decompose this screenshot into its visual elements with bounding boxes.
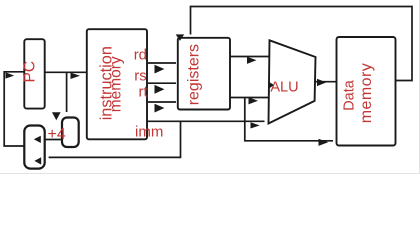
wire rd — [148, 62, 176, 64]
PC register — [24, 39, 44, 108]
arrowhead into instruction memory — [71, 73, 81, 79]
svg-text:rd: rd — [134, 47, 147, 64]
faint screen border right — [419, 0, 420, 174]
svg-text:memory: memory — [108, 56, 125, 112]
svg-text:+4: +4 — [48, 126, 66, 143]
arrowhead into +4 adder — [52, 112, 61, 120]
wire read data 2 to ALU — [230, 97, 269, 99]
wire writeback from data memory to registers — [191, 7, 413, 81]
wire rs — [148, 82, 176, 84]
svg-text:imm: imm — [135, 124, 163, 141]
wire mux output to PC — [4, 72, 24, 146]
arrowhead write port registers — [176, 34, 185, 41]
wire branch down to +4 — [66, 72, 68, 112]
ALU — [269, 40, 316, 123]
arrowhead rt — [155, 104, 165, 113]
arrowhead mux input 1 — [34, 157, 41, 164]
arrowhead rs — [155, 85, 165, 94]
arrowhead read data 1 — [247, 57, 257, 64]
wire ALU to data memory — [315, 81, 337, 83]
arrowhead read data 2 — [249, 97, 259, 104]
registers — [178, 38, 230, 110]
mux — [24, 126, 44, 169]
svg-text:ALU: ALU — [270, 80, 298, 96]
svg-text:registers: registers — [186, 44, 203, 105]
wire read data 1 to ALU — [230, 56, 269, 58]
data memory — [337, 37, 396, 146]
svg-text:PC: PC — [22, 61, 39, 83]
wire imm — [147, 120, 265, 122]
arrowhead imm into ALU — [251, 122, 260, 128]
arrowhead into PC — [6, 72, 15, 78]
wire PC to instruction memory — [45, 71, 87, 73]
wire +4 to mux — [45, 139, 62, 141]
+4 adder — [62, 118, 79, 148]
svg-text:memory: memory — [358, 63, 375, 123]
svg-text:rs: rs — [134, 68, 147, 85]
wire branch target to mux — [49, 121, 181, 157]
arrowhead write data — [319, 139, 329, 146]
faint screen border bottom — [0, 173, 420, 174]
arrowhead ALU result — [317, 79, 326, 86]
svg-text:Data: Data — [341, 79, 357, 111]
svg-text:rt: rt — [139, 84, 149, 101]
wire write data to data memory — [245, 98, 333, 141]
wire rt — [148, 101, 176, 103]
arrowhead rd — [155, 65, 165, 74]
instruction memory — [87, 29, 147, 139]
ALU notch — [269, 82, 275, 89]
arrowhead mux input 0 — [34, 136, 41, 143]
